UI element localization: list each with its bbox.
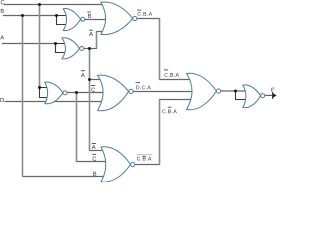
output pin crossbar at F [272, 92, 274, 99]
nor-inverter U1 output bubble [81, 17, 85, 21]
label net CBbarA at U7 bottom input [162, 110, 177, 114]
nor gate U7 output bubble [217, 89, 221, 93]
nor gate U3 output bubble [133, 16, 137, 20]
junction on Abar net at U2 output [88, 47, 91, 50]
wire U1 tied-input box [57, 16, 67, 25]
label net CBbarA at U6 output [137, 157, 152, 161]
wire Abar stub into U3 bottom input [96, 31, 104, 33]
wire U8 tied-input box [236, 91, 247, 100]
wire U6 output CBbarA to riser [135, 164, 160, 166]
label net Bbar at U1 output [88, 14, 91, 18]
junction on B wire [21, 14, 24, 17]
label output F [271, 88, 274, 92]
nor gate U7 (summing) body [187, 73, 217, 110]
label net Abar at U5 top input [81, 73, 85, 77]
nor-inverter U1 (B) body [63, 9, 80, 31]
wire U4 tied-input box [40, 88, 48, 98]
wire input D horizontal [5, 101, 104, 103]
wire input B horizontal [3, 15, 57, 17]
wire CbarBA into U7 top input [159, 79, 191, 81]
label input B [1, 9, 4, 13]
nor-inverter U8 output bubble [261, 94, 265, 98]
wire U8 output to F arrow [265, 94, 273, 96]
wire input C horizontal [4, 4, 103, 6]
nor-inverter U4 (C) body [45, 82, 63, 104]
label input D [0, 98, 3, 102]
junction at U4 input box [38, 86, 41, 89]
wire U2 output Abar [84, 48, 97, 50]
nor-inverter U4 output bubble [63, 91, 67, 95]
wire U1 output Bbar to U3 [85, 19, 107, 21]
nor gate U3 (CbarBA) body [101, 2, 133, 35]
nor-inverter U2 (A) body [62, 38, 79, 59]
nor gate U6 (CBbarA) body [101, 147, 131, 182]
junction on Abar net at U5 branch [88, 78, 91, 81]
wire U5 output DbarCA to U7 middle input [133, 91, 193, 93]
junction on Cbar net at U4 output [75, 91, 78, 94]
label net DbarCA at U5 output [136, 86, 151, 90]
wire Cbar stub into U6 middle input [76, 161, 107, 163]
wire Abar vertical distribution [89, 49, 91, 151]
wire Abar stub into U6 top input [89, 150, 104, 152]
wire Abar stub to U5 top input [90, 79, 102, 81]
nor gate U5 output bubble [129, 89, 133, 93]
label net Abar at U6 top input [92, 145, 96, 149]
label net CbarBA at U7 top input [164, 73, 179, 77]
nor-inverter U2 output bubble [80, 47, 84, 51]
output arrow to F [273, 93, 277, 98]
label input C [1, 0, 5, 4]
junction on C wire [38, 3, 41, 6]
wire Cbar vertical distribution [76, 93, 78, 162]
wire CBbarA into U7 bottom input [159, 99, 195, 101]
wire riser CbarBA from U3 down to U7 [159, 19, 161, 80]
wire U2 tied-input box [56, 44, 65, 53]
wire input A horizontal [2, 43, 56, 45]
wire U3 output CbarBA to riser [137, 18, 160, 20]
label net Abar at U3 bottom input [89, 32, 93, 36]
wire riser CBbarA from U6 up to U7 [159, 100, 161, 165]
junction at U1 input box [55, 14, 58, 17]
label net CbarBA at U3 output [138, 12, 153, 16]
wire U4 output Cbar to U5 middle input [67, 92, 104, 94]
wire B net bottom run to U6 input [23, 176, 107, 178]
label net Cbar at U6 middle input [93, 157, 97, 161]
wire Abar riser to U3 input [96, 32, 98, 49]
label net B at U6 bottom input [93, 172, 96, 176]
wire U7 output to U8 [221, 90, 246, 92]
label net Cbar at U5 middle input [91, 88, 95, 92]
junction at U2 input box [54, 42, 57, 45]
wire B vertical distribution [22, 16, 24, 177]
nor gate U6 output bubble [131, 162, 135, 166]
nor-inverter U8 (output) body [243, 85, 261, 108]
nor gate U5 (DbarCA) body [98, 75, 129, 111]
label input A [0, 35, 4, 39]
wire C vertical tap to U4 [39, 5, 41, 88]
junction at U8 input box [234, 90, 237, 93]
